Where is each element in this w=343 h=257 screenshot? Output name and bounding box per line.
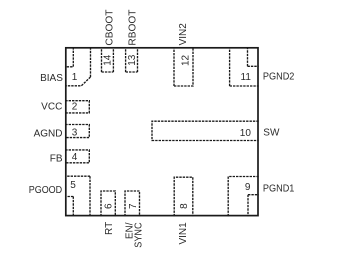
pin 6 pad <box>101 191 115 216</box>
pin 9 corner notch <box>248 195 259 217</box>
pin 3 pad <box>65 125 89 138</box>
svg-text:SYNC: SYNC <box>133 223 144 248</box>
svg-text:PGND2: PGND2 <box>263 71 295 82</box>
pin 11 pad <box>230 47 259 86</box>
svg-text:RT: RT <box>104 222 115 235</box>
pin 5 pad <box>65 176 90 216</box>
pin 13 pad <box>126 47 138 72</box>
pin 7 pad <box>125 191 140 216</box>
pin 1 pad <box>65 47 90 86</box>
svg-text:2: 2 <box>72 101 78 112</box>
svg-text:12: 12 <box>181 54 192 66</box>
pin 11 corner notch <box>248 47 259 66</box>
svg-text:VIN1: VIN1 <box>178 222 189 245</box>
svg-text:3: 3 <box>72 127 78 138</box>
svg-text:11: 11 <box>241 72 252 83</box>
svg-text:8: 8 <box>179 203 190 209</box>
svg-text:PGND1: PGND1 <box>263 183 295 194</box>
pin 4 pad <box>65 150 89 163</box>
svg-text:13: 13 <box>127 54 138 66</box>
svg-text:CBOOT: CBOOT <box>104 10 115 46</box>
pin 5 corner notch <box>65 197 73 217</box>
svg-text:14: 14 <box>103 54 114 66</box>
pin 14 pad <box>102 47 114 72</box>
svg-text:BIAS: BIAS <box>40 73 63 84</box>
package outline <box>66 48 258 216</box>
pin 12 pad <box>174 47 193 86</box>
pin 10 pad <box>152 121 259 140</box>
svg-text:1: 1 <box>72 72 78 83</box>
svg-text:FB: FB <box>50 153 63 164</box>
svg-text:4: 4 <box>72 152 78 163</box>
svg-text:10: 10 <box>240 128 252 139</box>
svg-text:6: 6 <box>104 203 115 209</box>
svg-text:VCC: VCC <box>41 101 62 112</box>
pin 2 pad <box>65 101 89 113</box>
svg-text:AGND: AGND <box>34 128 63 139</box>
pin 8 pad <box>174 177 193 216</box>
svg-text:PGOOD: PGOOD <box>29 185 63 196</box>
pin 9 pad <box>228 177 259 217</box>
svg-text:7: 7 <box>128 203 139 209</box>
svg-text:9: 9 <box>245 182 251 193</box>
svg-text:5: 5 <box>70 180 76 191</box>
svg-text:RBOOT: RBOOT <box>128 10 139 46</box>
svg-text:SW: SW <box>263 127 280 138</box>
pin 1 corner notch <box>65 47 73 67</box>
svg-text:VIN2: VIN2 <box>178 23 189 46</box>
